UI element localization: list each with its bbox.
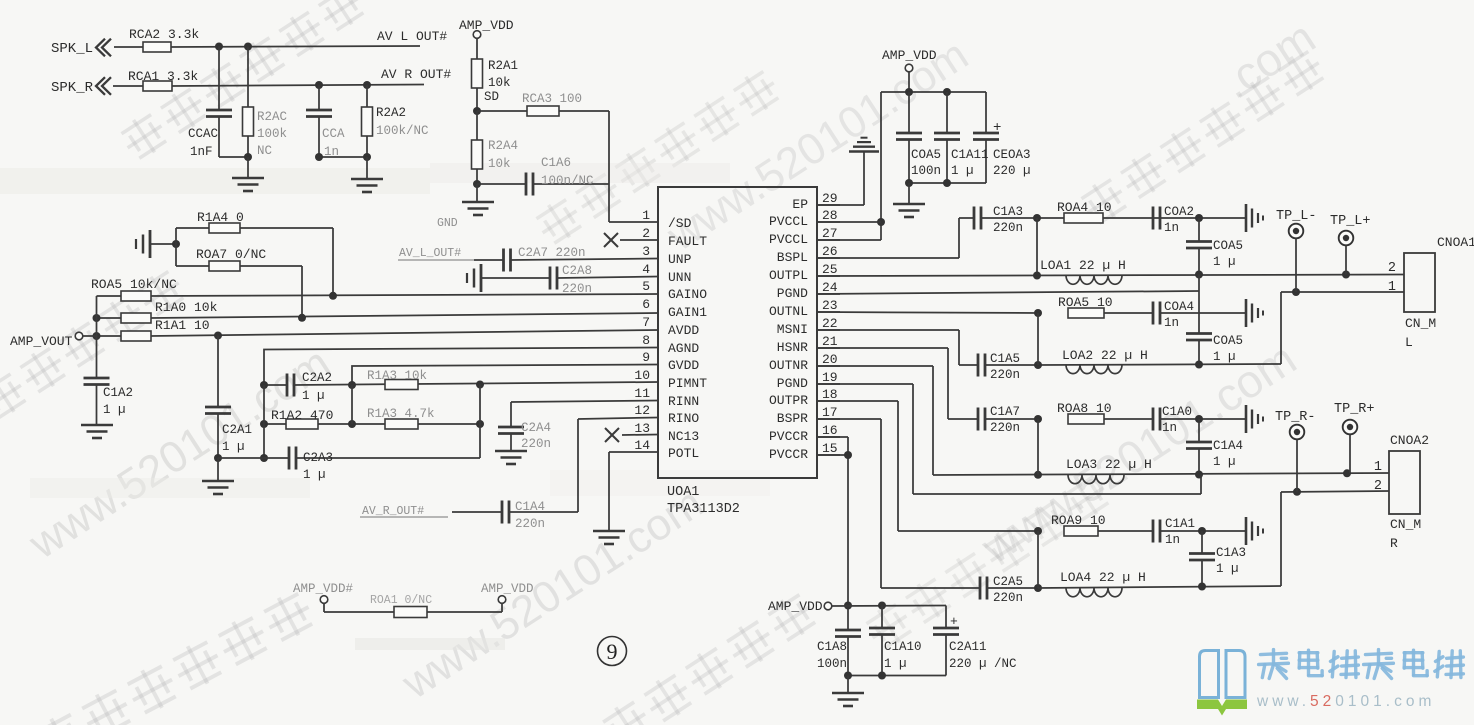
svg-text:2: 2 <box>1388 261 1396 276</box>
svg-text:R1A1 10: R1A1 10 <box>155 318 210 333</box>
svg-text:1: 1 <box>1388 280 1396 295</box>
svg-text:LOA4 22 µ H: LOA4 22 µ H <box>1060 570 1146 585</box>
svg-text:OUTNL: OUTNL <box>769 304 808 319</box>
svg-text:R2AC: R2AC <box>257 110 287 124</box>
svg-text:AGND: AGND <box>668 341 699 356</box>
svg-text:SD: SD <box>484 90 499 104</box>
svg-text:PGND: PGND <box>777 376 808 391</box>
svg-text:14: 14 <box>634 438 650 453</box>
svg-text:22: 22 <box>822 316 838 331</box>
svg-text:CN_M: CN_M <box>1390 517 1421 532</box>
svg-text:COA5: COA5 <box>1213 239 1243 253</box>
svg-text:1 µ: 1 µ <box>222 440 245 454</box>
svg-text:ROA9 10: ROA9 10 <box>1051 513 1106 528</box>
svg-text:SPK_R: SPK_R <box>51 80 94 96</box>
svg-text:19: 19 <box>822 370 838 385</box>
svg-text:R2A1: R2A1 <box>488 59 518 73</box>
svg-text:+: + <box>993 120 1001 136</box>
svg-text:AVDD: AVDD <box>668 323 699 338</box>
svg-text:26: 26 <box>822 244 838 259</box>
svg-text:10k: 10k <box>488 157 511 171</box>
svg-text:CNOA2: CNOA2 <box>1390 433 1429 448</box>
svg-text:BSPR: BSPR <box>777 411 808 426</box>
svg-text:AMP_VDD: AMP_VDD <box>882 48 937 63</box>
svg-text:9: 9 <box>642 350 650 365</box>
svg-text:R1A3 10k: R1A3 10k <box>367 369 427 383</box>
svg-text:1n: 1n <box>1165 533 1180 547</box>
svg-text:C2A11: C2A11 <box>949 640 987 654</box>
svg-text:L: L <box>1405 335 1413 350</box>
svg-text:C1A11: C1A11 <box>951 148 989 162</box>
svg-text:AV_L_OUT#: AV_L_OUT# <box>399 247 461 260</box>
svg-text:FAULT: FAULT <box>668 234 707 249</box>
svg-text:COA4: COA4 <box>1164 300 1194 314</box>
svg-text:COA2: COA2 <box>1164 205 1194 219</box>
svg-text:28: 28 <box>822 208 838 223</box>
svg-text:C2A5: C2A5 <box>993 575 1023 589</box>
svg-text:27: 27 <box>822 226 838 241</box>
svg-text:R: R <box>1390 536 1398 551</box>
svg-text:2: 2 <box>1374 479 1382 494</box>
svg-text:EP: EP <box>792 197 808 212</box>
svg-text:4: 4 <box>642 262 650 277</box>
svg-text:1 µ: 1 µ <box>951 164 974 178</box>
svg-text:C1A3: C1A3 <box>993 205 1023 219</box>
svg-text:100n: 100n <box>911 164 941 178</box>
svg-text:GAINO: GAINO <box>668 287 707 302</box>
svg-text:R2A2: R2A2 <box>376 106 406 120</box>
svg-text:6: 6 <box>642 297 650 312</box>
svg-text:C1A5: C1A5 <box>990 352 1020 366</box>
svg-text:C2A1: C2A1 <box>222 423 252 437</box>
svg-text:ROA5 10k/NC: ROA5 10k/NC <box>91 277 177 292</box>
svg-text:HSNR: HSNR <box>777 340 808 355</box>
svg-text:ROA5 10: ROA5 10 <box>1058 295 1113 310</box>
svg-text:15: 15 <box>822 441 838 456</box>
svg-text:1nF: 1nF <box>190 145 213 159</box>
svg-text:1 µ: 1 µ <box>1213 350 1236 364</box>
svg-text:UOA1: UOA1 <box>667 485 699 500</box>
svg-text:C1A8: C1A8 <box>817 640 847 654</box>
svg-text:C1A3: C1A3 <box>1216 546 1246 560</box>
svg-text:17: 17 <box>822 405 838 420</box>
svg-text:C2A4: C2A4 <box>521 421 551 435</box>
svg-text:CNOA1: CNOA1 <box>1437 235 1474 250</box>
svg-text:C2A3: C2A3 <box>303 451 333 465</box>
svg-text:220n: 220n <box>515 517 545 531</box>
svg-text:20: 20 <box>822 352 838 367</box>
svg-text:1n: 1n <box>1164 316 1179 330</box>
svg-text:11: 11 <box>634 386 650 401</box>
svg-text:TP_L+: TP_L+ <box>1330 214 1371 229</box>
svg-text:1n: 1n <box>1162 421 1177 435</box>
svg-text:1: 1 <box>1374 460 1382 475</box>
svg-text:10k: 10k <box>488 76 511 90</box>
svg-text:7: 7 <box>642 315 650 330</box>
svg-text:AMP_VDD: AMP_VDD <box>481 582 534 596</box>
svg-text:23: 23 <box>822 298 838 313</box>
svg-text:CN_M: CN_M <box>1405 316 1436 331</box>
svg-text:24: 24 <box>822 280 838 295</box>
svg-text:TP_R-: TP_R- <box>1275 410 1316 425</box>
svg-text:AMP_VOUT: AMP_VOUT <box>10 334 73 349</box>
svg-text:100n: 100n <box>817 657 847 671</box>
svg-text:1 µ: 1 µ <box>1216 562 1239 576</box>
svg-text:10: 10 <box>634 368 650 383</box>
svg-text:18: 18 <box>822 387 838 402</box>
svg-text:R1A3 4.7k: R1A3 4.7k <box>367 407 435 421</box>
svg-text:GND: GND <box>437 217 458 230</box>
svg-text:AMP_VDD#: AMP_VDD# <box>293 582 354 596</box>
svg-text:RINN: RINN <box>668 394 699 409</box>
svg-text:25: 25 <box>822 262 838 277</box>
svg-text:2: 2 <box>642 226 650 241</box>
svg-text:8: 8 <box>642 333 650 348</box>
svg-text:220n: 220n <box>562 282 592 296</box>
svg-text:OUTPR: OUTPR <box>769 393 808 408</box>
svg-text:220n: 220n <box>990 368 1020 382</box>
svg-text:LOA3 22 µ H: LOA3 22 µ H <box>1066 457 1152 472</box>
svg-text:AMP_VDD: AMP_VDD <box>768 599 823 614</box>
svg-text:C1A4: C1A4 <box>515 500 545 514</box>
svg-text:16: 16 <box>822 423 838 438</box>
svg-text:29: 29 <box>822 191 838 206</box>
svg-text:TPA3113D2: TPA3113D2 <box>667 502 740 517</box>
svg-text:C2A2: C2A2 <box>302 371 332 385</box>
svg-text:C1A7: C1A7 <box>990 405 1020 419</box>
svg-text:220 µ: 220 µ <box>993 164 1031 178</box>
svg-text:LOA2 22 µ H: LOA2 22 µ H <box>1062 348 1148 363</box>
svg-text:21: 21 <box>822 334 838 349</box>
svg-text:LOA1 22 µ H: LOA1 22 µ H <box>1040 258 1126 273</box>
svg-text:CCAC: CCAC <box>188 127 218 141</box>
svg-text:1 µ: 1 µ <box>1213 455 1236 469</box>
svg-text:PIMNT: PIMNT <box>668 376 707 391</box>
svg-text:1 µ: 1 µ <box>303 468 326 482</box>
svg-text:ROA1 0/NC: ROA1 0/NC <box>370 594 432 607</box>
svg-text:R1A2 470: R1A2 470 <box>271 408 333 423</box>
svg-text:12: 12 <box>634 403 650 418</box>
svg-text:COA5: COA5 <box>1213 334 1243 348</box>
svg-text:CEOA3: CEOA3 <box>993 148 1031 162</box>
svg-text:AMP_VDD: AMP_VDD <box>459 18 514 33</box>
svg-text:AV L OUT#: AV L OUT# <box>377 29 447 44</box>
svg-text:BSPL: BSPL <box>777 250 808 265</box>
svg-text:5: 5 <box>642 279 650 294</box>
svg-text:R2A4: R2A4 <box>488 139 518 153</box>
svg-text:220 µ /NC: 220 µ /NC <box>949 657 1017 671</box>
svg-text:ROA8 10: ROA8 10 <box>1057 401 1112 416</box>
svg-text:3: 3 <box>642 244 650 259</box>
svg-text:1n: 1n <box>1164 221 1179 235</box>
svg-text:AV R OUT#: AV R OUT# <box>381 67 451 82</box>
svg-text:100n/NC: 100n/NC <box>541 174 594 188</box>
svg-text:C1A2: C1A2 <box>103 386 133 400</box>
svg-text:RINO: RINO <box>668 411 699 426</box>
svg-text:CCA: CCA <box>322 127 345 141</box>
svg-text:PVCCL: PVCCL <box>769 214 808 229</box>
svg-text:ROA7 0/NC: ROA7 0/NC <box>196 247 266 262</box>
svg-text:www.520101.com: www.520101.com <box>1256 693 1435 710</box>
svg-text:TP_L-: TP_L- <box>1276 209 1317 224</box>
svg-text:C1A1: C1A1 <box>1165 517 1195 531</box>
svg-text:100k/NC: 100k/NC <box>376 124 429 138</box>
svg-text:UNN: UNN <box>668 270 691 285</box>
svg-text:ROA4 10: ROA4 10 <box>1057 200 1112 215</box>
svg-text:220n: 220n <box>993 591 1023 605</box>
svg-text:COA5: COA5 <box>911 148 941 162</box>
svg-text:UNP: UNP <box>668 252 692 267</box>
svg-text:RCA1 3.3k: RCA1 3.3k <box>128 69 198 84</box>
svg-text:SPK_L: SPK_L <box>51 41 93 57</box>
svg-text:C1A4: C1A4 <box>1213 439 1243 453</box>
svg-text:NC: NC <box>257 144 272 158</box>
svg-text:C2A8: C2A8 <box>562 264 592 278</box>
svg-text:R1A4 0: R1A4 0 <box>197 210 244 225</box>
svg-text:1 µ: 1 µ <box>1213 255 1236 269</box>
svg-text:13: 13 <box>634 421 650 436</box>
svg-text:MSNI: MSNI <box>777 322 808 337</box>
svg-text:9: 9 <box>607 639 618 664</box>
svg-text:C1A0: C1A0 <box>1162 405 1192 419</box>
svg-text:C1A6: C1A6 <box>541 156 571 170</box>
svg-text:PVCCR: PVCCR <box>769 447 808 462</box>
svg-text:GAIN1: GAIN1 <box>668 305 707 320</box>
svg-text:1 µ: 1 µ <box>884 657 907 671</box>
svg-text:220n: 220n <box>990 421 1020 435</box>
svg-text:1: 1 <box>642 208 650 223</box>
svg-text:POTL: POTL <box>668 446 699 461</box>
svg-text:C1A10: C1A10 <box>884 640 922 654</box>
svg-text:100k: 100k <box>257 127 287 141</box>
svg-text:NC13: NC13 <box>668 429 699 444</box>
svg-text:GVDD: GVDD <box>668 358 699 373</box>
svg-text:/SD: /SD <box>668 216 692 231</box>
svg-text:RCA2 3.3k: RCA2 3.3k <box>129 27 199 42</box>
svg-text:220n: 220n <box>993 221 1023 235</box>
svg-text:PGND: PGND <box>777 286 808 301</box>
svg-text:1 µ: 1 µ <box>302 389 325 403</box>
svg-text:PVCCR: PVCCR <box>769 429 808 444</box>
svg-text:RCA3 100: RCA3 100 <box>522 92 582 106</box>
svg-text:TP_R+: TP_R+ <box>1334 402 1375 417</box>
svg-text:1 µ: 1 µ <box>103 403 126 417</box>
svg-text:+: + <box>950 614 958 629</box>
svg-text:AV_R_OUT#: AV_R_OUT# <box>362 505 424 518</box>
svg-text:PVCCL: PVCCL <box>769 232 808 247</box>
svg-text:C2A7 220n: C2A7 220n <box>518 246 586 260</box>
svg-text:R1A0 10k: R1A0 10k <box>155 300 218 315</box>
svg-text:OUTPL: OUTPL <box>769 268 808 283</box>
svg-text:220n: 220n <box>521 437 551 451</box>
svg-text:OUTNR: OUTNR <box>769 358 808 373</box>
